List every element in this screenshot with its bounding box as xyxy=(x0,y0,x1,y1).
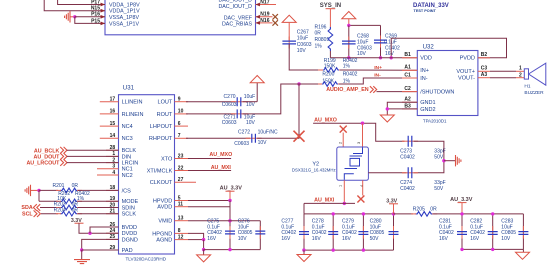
svg-text:Y2: Y2 xyxy=(312,161,319,167)
wire PAD xyxy=(82,249,119,251)
ground triangle U31 xyxy=(197,255,211,262)
wire ground stem C277 xyxy=(303,250,305,254)
wire pin N19 stub xyxy=(256,16,273,18)
svg-text:1: 1 xyxy=(339,185,343,187)
capacitor C269 xyxy=(374,40,387,43)
power tap bar AU_3.3V U31 xyxy=(226,190,235,192)
svg-text:VSSA_1P8V: VSSA_1P8V xyxy=(109,15,140,21)
wire C275 vertical xyxy=(229,201,231,250)
svg-text:HPGND: HPGND xyxy=(152,231,172,237)
junction dots bottom rail xyxy=(302,248,305,251)
wire DGND xyxy=(82,239,119,250)
svg-text:U32: U32 xyxy=(423,44,435,51)
svg-text:AU_DOUT: AU_DOUT xyxy=(34,155,61,161)
resistor R202 xyxy=(60,199,78,204)
pin P17 arrowhead xyxy=(101,3,105,6)
svg-text:AU_MXO: AU_MXO xyxy=(209,152,232,158)
svg-text:VDDA_1P1V: VDDA_1P1V xyxy=(109,9,140,15)
wire crystal pin1 xyxy=(343,180,345,203)
wire bottom rail C277 block xyxy=(304,249,394,251)
svg-text:U31: U31 xyxy=(123,84,135,91)
chevron AU_BCLK xyxy=(60,147,67,154)
capacitor C272 xyxy=(252,134,256,143)
wire SCL xyxy=(41,213,58,215)
junction dot DATAIN/VDD row xyxy=(390,56,393,59)
resistor R205 xyxy=(415,212,433,217)
svg-text:1%: 1% xyxy=(343,63,351,69)
svg-text:C0603: C0603 xyxy=(234,141,249,147)
svg-text:RHPOUT: RHPOUT xyxy=(149,136,173,142)
ground triangle U32 xyxy=(380,115,394,122)
svg-text:VOUT-: VOUT- xyxy=(458,76,475,82)
svg-text:R0805: R0805 xyxy=(315,37,330,43)
svg-text:C0402: C0402 xyxy=(400,154,415,160)
wire HPGND to AGND xyxy=(188,233,204,239)
capacitor C277 xyxy=(299,232,309,235)
svg-text:C0603: C0603 xyxy=(222,102,237,108)
svg-text:DAC_IOUT_D: DAC_IOUT_D xyxy=(218,4,252,10)
wire crystal pin4 xyxy=(362,180,364,195)
svg-text:50V: 50V xyxy=(434,186,444,192)
svg-text:C0402: C0402 xyxy=(400,186,415,192)
svg-text:LLINEIN: LLINEIN xyxy=(122,100,143,106)
wire R201 to /CS xyxy=(78,189,119,191)
wire R196 to VDD row xyxy=(329,51,331,58)
svg-text:3: 3 xyxy=(357,142,361,144)
svg-text:VDD: VDD xyxy=(420,56,432,62)
capacitor C273 xyxy=(408,136,412,147)
resistor R204 xyxy=(60,211,78,216)
svg-text:XTI/MCLK: XTI/MCLK xyxy=(147,168,173,174)
svg-text:BUZZER: BUZZER xyxy=(524,90,544,96)
svg-text:C3: C3 xyxy=(481,66,488,72)
svg-text:16V: 16V xyxy=(385,51,395,57)
svg-text:XTO: XTO xyxy=(161,156,173,162)
svg-text:LRCIN: LRCIN xyxy=(122,161,139,167)
chevron AU_DOUT xyxy=(60,153,67,160)
svg-text:10V: 10V xyxy=(246,102,256,108)
svg-text:MODE: MODE xyxy=(122,199,139,205)
wire R203 to SDIN xyxy=(78,207,119,209)
resistor R203 xyxy=(60,205,78,210)
svg-text:10V: 10V xyxy=(501,236,511,242)
wire GND2 row xyxy=(387,108,417,110)
wire power stem xyxy=(256,83,258,102)
svg-text:AUDIO_AMP_EN: AUDIO_AMP_EN xyxy=(326,87,369,93)
buzzer H1 symbol xyxy=(524,69,528,79)
wire crystal to C274 xyxy=(368,172,406,174)
wire AU_LRCOUT xyxy=(67,162,119,164)
wire AU_3.3V stem xyxy=(461,203,463,214)
capacitor C278 xyxy=(328,232,338,235)
capacitor C277 vertical wire xyxy=(303,214,305,250)
svg-text:16V: 16V xyxy=(207,236,217,242)
wire down to R202 xyxy=(38,190,40,201)
wire C271 to R200 xyxy=(243,84,318,114)
svg-text:R201: R201 xyxy=(53,183,65,189)
svg-text:1%: 1% xyxy=(343,78,351,84)
pin N15 arrowhead xyxy=(101,9,105,12)
crystal Y2 box xyxy=(337,147,369,180)
junction dot crystal pin3 xyxy=(361,122,364,125)
wire C273 right xyxy=(414,141,444,173)
svg-text:VOUT+: VOUT+ xyxy=(456,69,475,75)
wire pin N15 xyxy=(44,0,105,11)
svg-text:AU_LRCOUT: AU_LRCOUT xyxy=(26,161,60,167)
junction dot AGND xyxy=(202,238,205,241)
wire R199 to IN+ A1 xyxy=(340,69,417,71)
wire R200 jog to IN- C1 xyxy=(339,78,417,84)
junction dot VMID xyxy=(228,219,231,222)
capacitor C280 vertical wire xyxy=(393,214,395,250)
wire crystal pin3 xyxy=(362,123,364,147)
svg-text:50V: 50V xyxy=(434,154,444,160)
capacitor C271 xyxy=(237,109,241,118)
junction dot R201 xyxy=(37,189,40,192)
capacitor C279 xyxy=(358,232,368,235)
junction dot HPVDD xyxy=(228,199,231,202)
svg-text:10uF/NC: 10uF/NC xyxy=(258,130,278,136)
svg-text:LHPOUT: LHPOUT xyxy=(150,124,173,130)
wire C276 vertical xyxy=(259,221,261,250)
capacitor C268 xyxy=(342,41,356,44)
power arrow above C268 xyxy=(342,12,356,19)
wire LOUT to C270 xyxy=(186,101,235,103)
analog ground C273/C274 xyxy=(456,155,461,166)
wire to ground bars xyxy=(81,250,83,260)
chevron SCL xyxy=(34,210,41,217)
wire arrow stem xyxy=(348,19,350,25)
power tap bar 3.3V left xyxy=(75,222,84,224)
wire pin N17 stub xyxy=(256,4,277,6)
wire VOUT+ to buzzer pin1 xyxy=(490,70,516,72)
junction dot C268/VDD row xyxy=(347,56,350,59)
analog ground AGND at P16 xyxy=(65,11,70,22)
wire crystal pin2 xyxy=(342,133,344,147)
svg-text:NC3: NC3 xyxy=(122,136,133,142)
svg-text:PAD: PAD xyxy=(122,248,133,254)
junction dot AU_MXI xyxy=(343,202,346,205)
svg-text:TPA2010D1: TPA2010D1 xyxy=(423,119,447,124)
wire ground bus xyxy=(204,249,261,251)
svg-text:VSSA_1P1V: VSSA_1P1V xyxy=(109,21,140,27)
wire GND1/GND2 to ground xyxy=(387,102,417,115)
capacitor C281 xyxy=(457,232,467,235)
junction dot DVDD xyxy=(88,232,91,235)
svg-text:AU_BCLK: AU_BCLK xyxy=(34,148,60,154)
wire to R202 xyxy=(39,200,58,202)
svg-text:0.1uF: 0.1uF xyxy=(384,39,397,45)
wire AU_BCLK xyxy=(67,149,119,151)
svg-text:IN+: IN+ xyxy=(420,68,429,74)
svg-text:16V: 16V xyxy=(470,236,480,242)
capacitor C267 xyxy=(282,41,296,44)
svg-text:H1: H1 xyxy=(524,84,530,90)
wire pin N16 stub xyxy=(256,22,273,24)
wire AU_MXI to rail xyxy=(303,203,305,214)
svg-text:R200: R200 xyxy=(322,72,334,78)
pin N16 arrowhead xyxy=(256,21,260,24)
crystal symbol xyxy=(344,148,362,180)
capacitor C280 xyxy=(389,232,399,235)
svg-text:SCL: SCL xyxy=(22,211,33,217)
wire ground stem xyxy=(203,250,205,255)
wire AU_3.3V stem xyxy=(229,191,231,200)
svg-text:DVDD: DVDD xyxy=(122,231,138,237)
svg-text:C0603: C0603 xyxy=(222,120,237,126)
wire C268 vertical xyxy=(348,25,350,57)
chevron SDA xyxy=(33,204,40,211)
wire XTI/MCLK xyxy=(188,170,231,172)
wire rail to R205 xyxy=(394,213,414,215)
power arrow above C267 xyxy=(282,15,296,22)
svg-text:/SHUTDOWN: /SHUTDOWN xyxy=(420,90,454,96)
IC U30 DAC (partial box top-left) xyxy=(105,0,256,35)
pin P15 arrowhead xyxy=(101,22,105,25)
wire pin P16 xyxy=(75,16,105,18)
wire C267 to R199 xyxy=(289,44,318,70)
svg-text:DGND: DGND xyxy=(122,237,138,243)
no-connect X at N19 xyxy=(272,14,278,19)
wire DATAIN_33V to PVDD xyxy=(391,38,506,58)
capacitor C283 xyxy=(518,232,528,235)
wire pin P17 xyxy=(58,0,105,5)
wire ROUT to C271 xyxy=(186,113,235,115)
wire to BVDD xyxy=(90,227,119,233)
capacitor C283 vertical wire xyxy=(522,214,524,250)
resistor R200 xyxy=(321,82,339,87)
wire AUDIO_AMP_EN to C2 xyxy=(377,91,418,93)
junction dot C273/C274 xyxy=(442,159,445,162)
svg-text:SDIN: SDIN xyxy=(122,205,135,211)
wire top rail C277 block xyxy=(304,213,394,215)
capacitor C274 xyxy=(408,167,412,178)
svg-text:4: 4 xyxy=(360,185,364,187)
amplifier U32 box xyxy=(417,51,478,116)
junction dot C269/VDD row xyxy=(379,56,382,59)
analog ground at R201 xyxy=(25,185,30,196)
svg-text:DSX321G_16.432MHz: DSX321G_16.432MHz xyxy=(292,168,336,173)
svg-text:AGND: AGND xyxy=(156,238,172,244)
svg-text:0R: 0R xyxy=(315,31,322,37)
svg-text:16V: 16V xyxy=(312,236,322,242)
junction dots AU rail xyxy=(460,212,463,215)
svg-text:16V: 16V xyxy=(439,236,449,242)
wire 3.3V stem xyxy=(393,204,395,214)
wire AU_MXO xyxy=(313,123,404,141)
svg-text:HPVDD: HPVDD xyxy=(153,198,172,204)
svg-text:10V: 10V xyxy=(246,120,256,126)
svg-text:C267: C267 xyxy=(297,29,309,35)
wire ground stem C283 xyxy=(522,249,524,252)
svg-text:DAC_RBIAS: DAC_RBIAS xyxy=(222,21,252,27)
svg-text:ROUT: ROUT xyxy=(157,112,173,118)
wire AGND row xyxy=(188,239,204,241)
junction dot P16 xyxy=(73,15,76,18)
wire R205 to AU rail xyxy=(433,213,462,215)
capacitor C281 vertical wire xyxy=(461,214,463,250)
junction dot PAD xyxy=(80,248,83,251)
no-connect X crystal pin4 xyxy=(357,196,364,203)
svg-text:RLINEIN: RLINEIN xyxy=(122,112,144,118)
svg-text:BCLK: BCLK xyxy=(122,148,137,154)
wire SDA xyxy=(40,207,58,209)
power tap bar 3.3V right xyxy=(389,203,398,205)
pin N19 arrowhead xyxy=(256,15,260,18)
svg-text:10V: 10V xyxy=(238,236,248,242)
wire to analog ground xyxy=(444,160,456,162)
junction dot C275 bus xyxy=(228,248,231,251)
svg-text:2: 2 xyxy=(519,72,522,78)
wire HPVDD xyxy=(188,200,230,202)
svg-text:10uF: 10uF xyxy=(297,36,308,42)
svg-text:SCLK: SCLK xyxy=(122,212,137,218)
capacitor C279 vertical wire xyxy=(362,214,364,250)
wire AU_MXI xyxy=(304,202,355,204)
ground triangle AU bank xyxy=(516,252,530,259)
svg-text:AU_MXI: AU_MXI xyxy=(314,198,335,204)
ground bars DGND xyxy=(74,260,90,264)
svg-text:10uF: 10uF xyxy=(244,94,255,100)
svg-text:IN+: IN+ xyxy=(374,65,382,71)
resistor R201 xyxy=(60,188,78,193)
svg-text:C270: C270 xyxy=(224,94,236,100)
wire rail y25 xyxy=(349,24,381,26)
wire AU rail top xyxy=(462,213,523,215)
ground triangle C277 block xyxy=(297,255,311,262)
no-connect X crystal pin2 xyxy=(340,126,347,133)
wire C272 to R200 dot xyxy=(257,84,299,138)
svg-text:GND1: GND1 xyxy=(420,100,435,106)
svg-text:NC4: NC4 xyxy=(122,124,133,130)
wire VMID row xyxy=(188,220,260,222)
svg-text:PVDD: PVDD xyxy=(460,56,475,62)
svg-text:DIN: DIN xyxy=(122,154,132,160)
svg-text:VDDA_1P8V: VDDA_1P8V xyxy=(109,2,140,8)
junction dot R200 row xyxy=(297,82,300,85)
power tap bar AU_3.3V rail xyxy=(458,202,467,204)
resistor R199 xyxy=(322,68,340,73)
svg-text:50V: 50V xyxy=(370,236,380,242)
pin N17 arrowhead xyxy=(256,3,260,6)
wire VOUT- to buzzer pin2 xyxy=(490,77,516,79)
svg-text:10uF: 10uF xyxy=(357,39,368,45)
wire AVDD xyxy=(188,206,230,208)
svg-text:VMID: VMID xyxy=(158,219,172,225)
svg-text:R0402: R0402 xyxy=(343,72,358,78)
svg-text:C0603: C0603 xyxy=(297,42,312,48)
DAC U31 box xyxy=(119,95,175,254)
svg-text:1%: 1% xyxy=(315,43,323,49)
no-connect X at N16 xyxy=(272,20,278,26)
wire AU rail bottom xyxy=(462,248,523,250)
resistor R196 (vertical) xyxy=(328,27,333,51)
wire XTO xyxy=(188,158,231,160)
wire 3.3V to DVDD xyxy=(79,223,119,233)
svg-text:10V: 10V xyxy=(258,140,268,146)
chevron AUDIO_AMP_EN xyxy=(370,86,377,93)
junction dot GND2 xyxy=(386,107,389,110)
svg-text:NC1: NC1 xyxy=(122,167,133,173)
svg-text:NC2: NC2 xyxy=(122,173,133,179)
capacitor C282 vertical wire xyxy=(492,214,494,250)
svg-text:2: 2 xyxy=(339,142,343,144)
capacitor C276 xyxy=(255,231,265,234)
svg-text:BVDD: BVDD xyxy=(122,225,137,231)
wire VDD row to U32 B1 xyxy=(330,57,417,59)
no-connect X at C272 xyxy=(294,131,305,142)
svg-text:SDA: SDA xyxy=(21,205,32,211)
svg-text:AU_MXO: AU_MXO xyxy=(314,117,337,123)
svg-text:10V: 10V xyxy=(357,51,367,57)
chevron AU_LRCOUT xyxy=(60,159,67,166)
capacitor C282 xyxy=(488,232,498,235)
wire AU_DOUT xyxy=(67,155,119,157)
capacitor C275 xyxy=(225,231,235,234)
svg-text:C272: C272 xyxy=(238,130,250,136)
junction dot bus left xyxy=(202,248,205,251)
wire C269 vertical xyxy=(380,25,382,57)
wire R202 to MODE xyxy=(78,200,119,202)
svg-text:16V: 16V xyxy=(281,236,291,242)
svg-text:/CS: /CS xyxy=(122,188,132,194)
svg-text:GND2: GND2 xyxy=(420,107,435,113)
power arrow at C270 xyxy=(250,76,264,83)
capacitor C278 vertical wire xyxy=(332,214,334,250)
svg-text:10V: 10V xyxy=(297,48,307,54)
wire SYS_IN stem xyxy=(329,9,331,27)
svg-text:CLKOUT: CLKOUT xyxy=(150,180,173,186)
wire AGND to R201 xyxy=(39,189,58,191)
svg-text:1: 1 xyxy=(519,66,522,72)
power tap bar SYS_IN xyxy=(326,8,336,10)
pin P16 arrowhead xyxy=(101,15,105,18)
svg-text:TLV320DAC23RHD: TLV320DAC23RHD xyxy=(126,256,167,261)
wire C270 to power arrow xyxy=(243,101,258,103)
svg-text:16V: 16V xyxy=(342,236,352,242)
svg-text:TEST POINT: TEST POINT xyxy=(414,9,437,13)
junction dots top rail xyxy=(332,212,335,215)
wire R204 to SCLK xyxy=(78,213,119,215)
wire AGND to bus xyxy=(203,240,205,250)
svg-text:0R: 0R xyxy=(430,206,437,212)
svg-text:A1: A1 xyxy=(404,65,411,71)
svg-text:AVDD: AVDD xyxy=(157,205,172,211)
svg-text:R196: R196 xyxy=(315,25,327,31)
wire pin P15 xyxy=(75,17,105,24)
svg-text:AU_3.3V: AU_3.3V xyxy=(220,186,243,192)
wire power to C267 xyxy=(288,23,290,41)
svg-text:IN-: IN- xyxy=(374,73,381,79)
svg-text:LOUT: LOUT xyxy=(158,100,173,106)
capacitor C270 xyxy=(237,97,241,106)
wire RHPOUT to C272 xyxy=(186,137,250,139)
svg-text:IN-: IN- xyxy=(420,76,428,82)
